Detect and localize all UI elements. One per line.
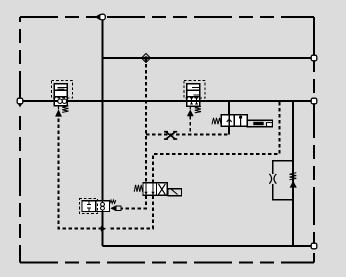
- enclosure E1 outer dashed frame: [20, 17, 314, 263]
- wire y=101 supply: [20, 100, 314, 102]
- throttle X on line A: [164, 132, 177, 139]
- wire pilot x=146 from node down to V4: [145, 58, 147, 183]
- node on left edge with down arrow: [17, 98, 23, 110]
- wire line A throttle y=134.5: [146, 134, 229, 136]
- valve V3 horizontal lower left: [80, 199, 121, 214]
- flow control FC bottom right: [269, 161, 297, 200]
- wire V4 bottom port2 to y=228.5 to V1 pilot: [59, 117, 154, 229]
- wire bottom y=246: [103, 245, 315, 247]
- wire V4 top port2 to x=279.5 riser: [153, 101, 280, 183]
- valve V2 vertical 3/2 center: [184, 81, 205, 117]
- wire x=293 to flow control: [292, 101, 294, 246]
- node y101 right: [311, 98, 317, 104]
- junction arrow at x102/y228: [104, 226, 109, 232]
- node on top edge with left arrow: [95, 14, 105, 20]
- wire y=58: [103, 57, 315, 59]
- wire V5 top stub: [228, 101, 230, 115]
- valve V4 horizontal center: [134, 183, 181, 196]
- wire V2 pilot down: [189, 116, 191, 134]
- valve V5 horizontal upper right: [212, 115, 273, 127]
- wire right edge solid top segment: [313, 17, 315, 58]
- node y246 right: [311, 243, 317, 249]
- node y58 x146 diamond with dot: [142, 54, 151, 63]
- valve V1 vertical 3/2 left: [52, 81, 73, 117]
- wire V4 bottom port1 to V3 pilot: [121, 195, 146, 208]
- wire V5 bottom stub: [228, 126, 230, 134]
- node y58 right: [311, 55, 317, 61]
- wire main vertical x=102.5: [102, 17, 104, 246]
